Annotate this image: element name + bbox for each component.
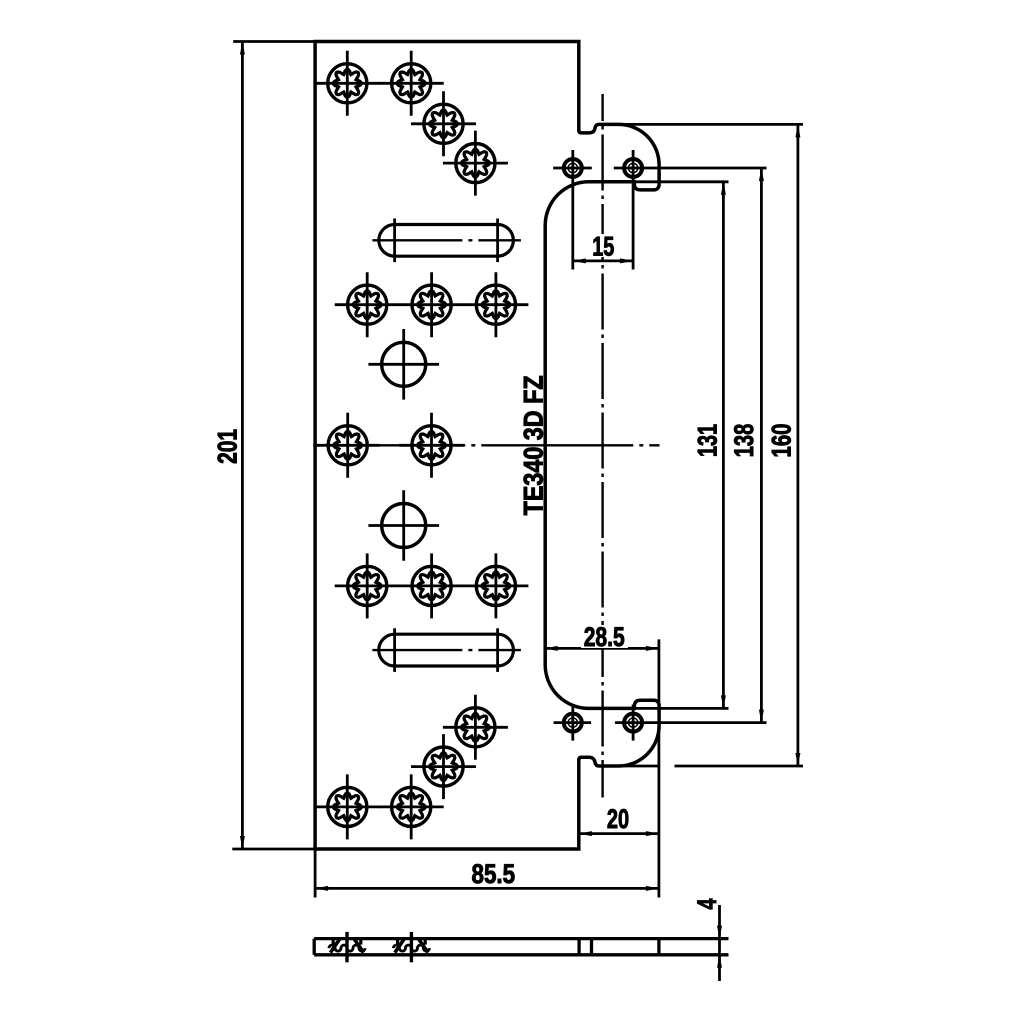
torx screw hole H10 with crosshair: [335, 553, 400, 618]
dowel pin hole P2 with crosshair: [614, 150, 767, 270]
part label TE340 3D FZ: [519, 375, 549, 515]
dowel pin hole P4 with crosshair: [615, 705, 767, 741]
svg-text:28.5: 28.5: [584, 622, 625, 652]
mounting plate outline with hinge pocket and fixing tab: [315, 42, 659, 850]
dimension 4 plate thickness: [692, 899, 722, 982]
svg-text:4: 4: [692, 899, 722, 910]
dowel pin hole P1 with crosshair: [553, 150, 592, 270]
horizontal centre line mid plate: [313, 444, 659, 446]
plain drill hole C2 with crosshair: [368, 490, 439, 561]
plain drill hole C1 with crosshair: [368, 329, 439, 400]
dimension 131 pocket length: [634, 182, 728, 709]
dowel pin hole P3 with crosshair: [554, 705, 592, 741]
dimension 160 tab length: [619, 124, 803, 766]
svg-text:138: 138: [729, 424, 759, 458]
torx screw hole H3 with crosshair: [411, 91, 476, 156]
torx screw hole H2 with crosshair: [379, 51, 444, 116]
svg-text:15: 15: [592, 231, 614, 261]
dimension 85.5 overall width: [315, 639, 659, 897]
torx screw hole H13 with crosshair: [443, 695, 508, 760]
svg-text:TE340 3D FZ: TE340 3D FZ: [519, 375, 549, 515]
torx screw hole H14 with crosshair: [411, 734, 476, 799]
wood screw thread symbol T2 with centre line: [393, 932, 429, 962]
svg-text:131: 131: [692, 424, 722, 457]
vertical centre line of tab: [601, 94, 603, 798]
torx screw hole H6 with crosshair: [399, 272, 464, 337]
slotted hole S2 with tick marks and centre line: [372, 628, 521, 672]
torx screw hole H12 with crosshair: [463, 553, 528, 618]
svg-text:85.5: 85.5: [472, 859, 516, 889]
side view plate strip: [314, 939, 728, 955]
dimension 201 overall height: [212, 42, 315, 850]
dimension 20 tab width: [579, 804, 659, 836]
torx screw hole H1 with crosshair: [315, 51, 380, 116]
torx screw hole H7 with crosshair: [463, 272, 528, 337]
svg-text:201: 201: [212, 429, 242, 464]
dimension 138 pin row spacing: [729, 168, 764, 723]
slotted hole S1 with tick marks and centre line: [372, 219, 521, 263]
dimension 15 pin spacing: [573, 231, 633, 263]
svg-text:20: 20: [607, 804, 629, 834]
torx screw hole H15 with crosshair: [379, 774, 444, 839]
torx screw hole H4 with crosshair: [443, 131, 508, 196]
torx screw hole H5 with crosshair: [335, 272, 400, 337]
wood screw thread symbol T1 with centre line: [329, 932, 365, 962]
torx screw hole H8 with crosshair: [315, 413, 380, 478]
svg-text:160: 160: [767, 424, 797, 458]
torx screw hole H16 with crosshair: [315, 774, 380, 839]
torx screw hole H9 with crosshair: [399, 413, 464, 478]
dimension 28.5 pocket width: [545, 622, 659, 652]
torx screw hole H11 with crosshair: [399, 553, 464, 618]
